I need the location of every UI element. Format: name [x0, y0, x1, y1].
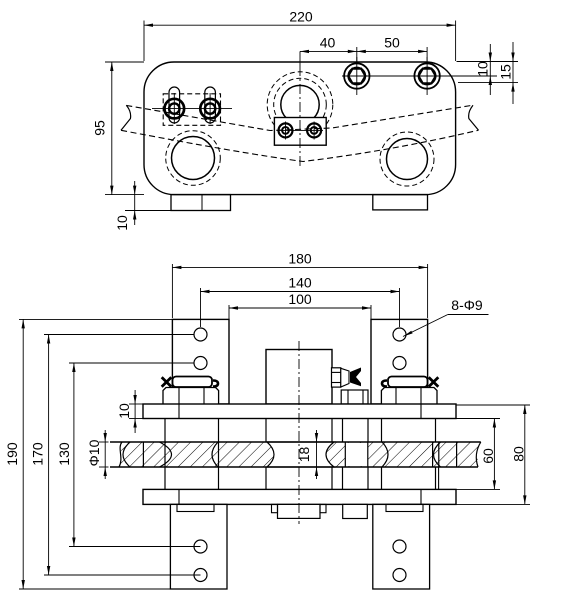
svg-text:100: 100: [288, 291, 312, 307]
svg-text:170: 170: [30, 442, 46, 466]
svg-text:220: 220: [289, 9, 313, 25]
svg-text:60: 60: [480, 448, 496, 464]
svg-text:95: 95: [92, 120, 108, 136]
svg-text:18: 18: [296, 447, 312, 463]
svg-text:10: 10: [116, 403, 132, 419]
svg-text:8-Φ9: 8-Φ9: [451, 297, 483, 313]
svg-text:40: 40: [320, 35, 336, 51]
svg-text:80: 80: [511, 446, 527, 462]
svg-text:50: 50: [384, 35, 400, 51]
svg-text:Φ10: Φ10: [86, 439, 102, 466]
svg-text:140: 140: [288, 275, 312, 291]
svg-text:10: 10: [114, 215, 130, 231]
svg-text:180: 180: [288, 251, 312, 267]
svg-text:130: 130: [56, 442, 72, 466]
svg-text:10: 10: [475, 61, 491, 77]
svg-text:190: 190: [4, 442, 20, 466]
svg-text:15: 15: [498, 64, 514, 80]
